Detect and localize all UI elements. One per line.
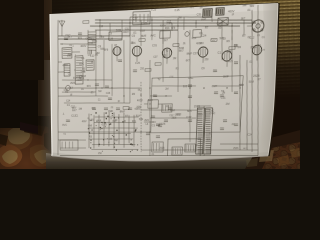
svg-text:25Z6: 25Z6 (171, 118, 177, 120)
svg-text:C24: C24 (99, 35, 104, 39)
svg-text:8MF: 8MF (201, 19, 207, 21)
svg-text:L4: L4 (99, 129, 102, 131)
svg-text:R3: R3 (176, 68, 180, 70)
svg-text:2M: 2M (173, 57, 177, 60)
svg-text:IF: IF (70, 93, 73, 97)
svg-text:0.25: 0.25 (135, 62, 140, 65)
svg-text:.05: .05 (109, 139, 113, 141)
svg-text:R3: R3 (65, 90, 69, 94)
svg-text:.01: .01 (81, 88, 85, 91)
svg-text:6K7: 6K7 (164, 40, 169, 42)
svg-text:250: 250 (140, 69, 144, 71)
svg-text:2M: 2M (226, 102, 231, 106)
svg-text:25Z6: 25Z6 (233, 148, 239, 150)
svg-text:C37: C37 (153, 57, 158, 59)
svg-text:C24: C24 (66, 99, 71, 102)
svg-text:.05: .05 (217, 25, 222, 30)
svg-text:6A8: 6A8 (88, 125, 93, 128)
svg-text:C12: C12 (249, 35, 255, 40)
svg-text:6F6: 6F6 (187, 109, 192, 113)
svg-text:400V: 400V (123, 30, 129, 35)
svg-text:0.25: 0.25 (151, 8, 156, 12)
svg-text:250: 250 (98, 152, 102, 155)
svg-text:6K7: 6K7 (69, 86, 74, 90)
svg-text:R7: R7 (257, 79, 261, 81)
svg-text:8MF: 8MF (223, 74, 229, 78)
svg-text:25Z6: 25Z6 (253, 74, 260, 79)
svg-text:IF: IF (91, 60, 94, 64)
svg-text:2M: 2M (238, 47, 242, 49)
svg-text:C24: C24 (106, 92, 111, 95)
svg-text:.01: .01 (133, 30, 137, 34)
svg-text:6A8: 6A8 (96, 119, 101, 123)
svg-text:50M: 50M (179, 46, 184, 50)
svg-text:R21: R21 (78, 37, 83, 40)
svg-text:400V: 400V (159, 23, 166, 28)
svg-text:6A8: 6A8 (170, 108, 175, 112)
svg-text:C24: C24 (201, 33, 207, 38)
svg-text:C12: C12 (99, 26, 104, 28)
svg-text:400V: 400V (62, 64, 68, 67)
svg-text:8MF: 8MF (108, 109, 113, 113)
svg-text:C31: C31 (169, 77, 174, 79)
svg-text:C12: C12 (71, 114, 76, 118)
svg-text:400V: 400V (80, 44, 86, 48)
svg-text:SW: SW (98, 91, 102, 93)
svg-text:R3: R3 (226, 40, 230, 43)
svg-text:SW: SW (178, 17, 183, 19)
svg-text:250: 250 (204, 59, 209, 61)
svg-text:0.25: 0.25 (260, 49, 265, 51)
svg-text:25Z6: 25Z6 (141, 21, 148, 26)
svg-text:.05: .05 (94, 52, 98, 56)
svg-text:C1: C1 (67, 103, 71, 107)
svg-text:50M: 50M (249, 6, 254, 8)
svg-text:.01: .01 (114, 120, 118, 122)
svg-text:.01: .01 (257, 35, 261, 37)
svg-text:R7: R7 (125, 116, 129, 118)
svg-text:C37: C37 (78, 78, 83, 81)
svg-text:25Z6: 25Z6 (166, 22, 172, 26)
svg-text:C31: C31 (152, 43, 158, 47)
svg-text:50M: 50M (140, 28, 146, 33)
svg-text:C1: C1 (217, 50, 221, 54)
svg-text:6K7: 6K7 (241, 18, 246, 20)
svg-text:C24: C24 (247, 132, 253, 136)
svg-text:OSC: OSC (175, 113, 181, 117)
svg-text:OSC: OSC (226, 50, 232, 53)
svg-text:.05: .05 (199, 6, 203, 10)
svg-text:0.25: 0.25 (175, 9, 181, 13)
svg-text:6F6: 6F6 (104, 47, 109, 51)
svg-text:C31: C31 (197, 14, 202, 16)
svg-text:C9: C9 (88, 53, 92, 57)
svg-text:.1: .1 (72, 44, 75, 47)
svg-text:R14: R14 (136, 115, 141, 118)
svg-text:AVC: AVC (198, 113, 203, 116)
svg-text:C31: C31 (221, 96, 227, 100)
svg-text:25Z6: 25Z6 (194, 104, 201, 108)
svg-text:AVC: AVC (62, 123, 67, 127)
svg-text:.01: .01 (182, 43, 186, 45)
svg-text:25Z6: 25Z6 (159, 122, 166, 126)
svg-text:C1: C1 (152, 123, 156, 127)
svg-text:50M: 50M (116, 28, 122, 33)
svg-text:T2: T2 (165, 50, 169, 53)
svg-text:C9: C9 (109, 33, 113, 36)
svg-text:T2: T2 (63, 134, 66, 136)
svg-text:300: 300 (183, 84, 188, 88)
svg-text:6K7: 6K7 (72, 108, 77, 112)
svg-text:6A8: 6A8 (148, 98, 153, 102)
svg-text:.1: .1 (74, 53, 77, 57)
svg-text:R21: R21 (132, 121, 137, 123)
svg-text:OSC: OSC (188, 77, 194, 80)
svg-text:R21: R21 (228, 60, 234, 63)
svg-text:AVC: AVC (144, 118, 149, 122)
svg-text:OSC: OSC (211, 39, 217, 42)
svg-text:OSC: OSC (209, 111, 215, 115)
svg-text:C1: C1 (98, 99, 101, 101)
svg-text:25Z6: 25Z6 (159, 147, 165, 150)
svg-text:400V: 400V (228, 9, 235, 14)
svg-text:6A8: 6A8 (114, 139, 118, 142)
svg-text:IF: IF (232, 14, 235, 16)
svg-text:.01: .01 (257, 43, 262, 48)
svg-text:400V: 400V (134, 107, 140, 111)
svg-text:8MF: 8MF (187, 51, 193, 56)
svg-text:C37: C37 (186, 115, 192, 119)
svg-text:R3: R3 (89, 136, 92, 139)
svg-text:50M: 50M (139, 119, 143, 121)
svg-text:C31: C31 (81, 70, 86, 73)
svg-text:.01: .01 (249, 60, 253, 63)
svg-text:8MF: 8MF (212, 84, 218, 88)
svg-text:R7: R7 (205, 26, 209, 29)
svg-text:.01: .01 (110, 107, 114, 109)
svg-text:6K7: 6K7 (68, 36, 73, 39)
svg-text:R7: R7 (209, 134, 213, 136)
svg-text:L4: L4 (146, 123, 149, 126)
svg-text:50M: 50M (248, 81, 253, 84)
svg-text:2M: 2M (79, 107, 82, 111)
svg-text:C37: C37 (193, 51, 199, 56)
svg-text:8MF: 8MF (141, 34, 147, 39)
svg-text:C1: C1 (76, 116, 79, 118)
svg-text:6A8: 6A8 (216, 21, 222, 26)
svg-text:.1: .1 (62, 112, 65, 116)
svg-text:SW: SW (242, 4, 247, 8)
svg-text:C1: C1 (262, 37, 266, 39)
svg-text:25Z6: 25Z6 (250, 45, 257, 50)
svg-text:6K7: 6K7 (138, 90, 143, 92)
svg-text:.05: .05 (90, 91, 94, 94)
svg-text:2M: 2M (165, 89, 168, 91)
svg-text:C31: C31 (89, 43, 94, 45)
svg-text:AVC: AVC (190, 6, 195, 10)
svg-text:0.25: 0.25 (102, 123, 107, 127)
svg-text:C9: C9 (201, 67, 205, 70)
svg-text:AVC: AVC (150, 33, 156, 38)
svg-text:IF: IF (118, 99, 121, 103)
svg-text:6K7: 6K7 (92, 108, 96, 110)
svg-text:6F6: 6F6 (171, 28, 176, 30)
svg-text:6F6: 6F6 (87, 85, 92, 88)
svg-text:0.25: 0.25 (89, 117, 94, 121)
svg-text:8MF: 8MF (120, 109, 126, 113)
svg-text:C1: C1 (81, 56, 85, 60)
svg-text:C1: C1 (68, 73, 71, 75)
svg-text:400V: 400V (137, 98, 143, 102)
svg-text:2M: 2M (132, 93, 135, 96)
svg-text:300: 300 (200, 43, 205, 45)
svg-text:25Z6: 25Z6 (70, 83, 76, 85)
svg-text:R7: R7 (242, 33, 246, 38)
svg-text:.01: .01 (89, 38, 93, 41)
svg-text:0.25: 0.25 (108, 36, 114, 40)
svg-text:400V: 400V (82, 121, 87, 123)
svg-text:R7: R7 (206, 138, 210, 142)
svg-text:R14: R14 (192, 38, 197, 40)
svg-text:AVC: AVC (79, 61, 84, 65)
